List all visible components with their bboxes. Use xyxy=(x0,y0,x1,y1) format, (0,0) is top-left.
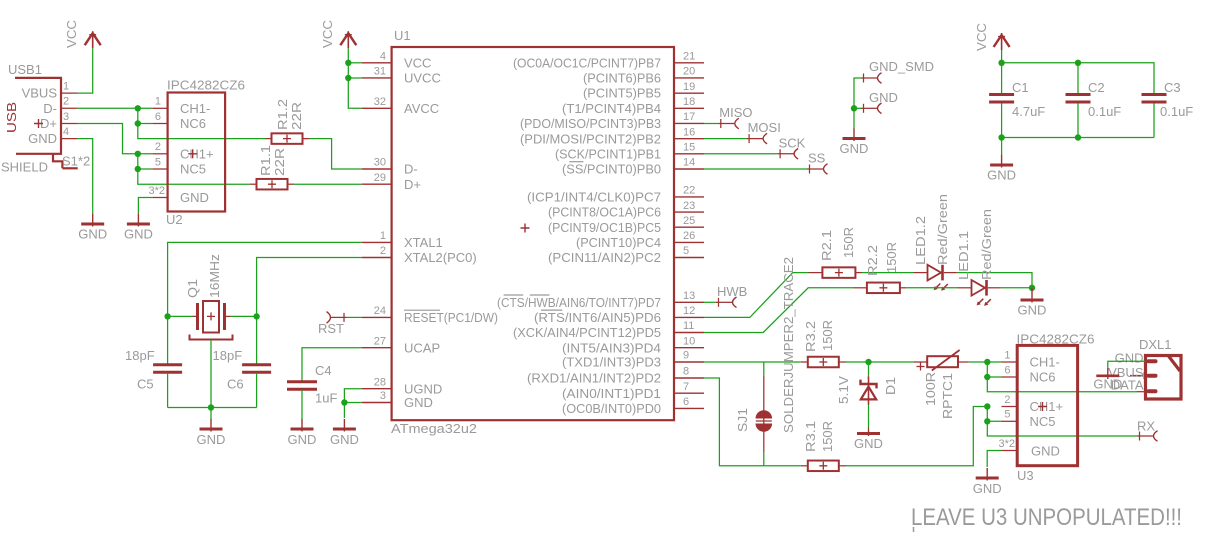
junction dot D+ pin5 xyxy=(135,166,141,172)
U1 pin 9 (TXD1/INT3)PD3 xyxy=(674,361,704,363)
U3 pin 1 xyxy=(1002,361,1018,363)
svg-text:4: 4 xyxy=(380,51,386,63)
junction dot bottom rail C2 xyxy=(1075,134,1081,140)
svg-text:VCC: VCC xyxy=(974,23,989,51)
U1 pin 5 (PCIN11/AIN2)PC2 xyxy=(674,257,704,259)
junction dot D- pin1 xyxy=(135,105,141,111)
svg-text:(OC0A/OC1C/PCINT7)PB7: (OC0A/OC1C/PCINT7)PB7 xyxy=(513,55,661,70)
junction dot top rail C2 xyxy=(1075,60,1081,66)
svg-text:GND: GND xyxy=(869,90,898,105)
svg-text:3: 3 xyxy=(380,390,386,402)
svg-text:D-: D- xyxy=(43,101,57,116)
wire R2.2 to LED1.1 xyxy=(906,287,957,289)
svg-text:23: 23 xyxy=(683,200,695,212)
ground GND (D1) xyxy=(868,431,870,437)
wire R3.2 to zener node xyxy=(846,361,913,363)
svg-text:VBUS: VBUS xyxy=(22,86,58,101)
svg-text:150R: 150R xyxy=(820,421,835,452)
svg-text:17: 17 xyxy=(683,111,695,123)
svg-text:16MHz: 16MHz xyxy=(207,254,222,298)
svg-text:ATmega32u2: ATmega32u2 xyxy=(391,421,477,436)
DXL1 pin 3 DATA xyxy=(1147,389,1158,393)
svg-text:UGND: UGND xyxy=(404,381,442,396)
net flag RX xyxy=(1136,435,1138,437)
svg-text:SHIELD: SHIELD xyxy=(1,160,48,175)
svg-text:2: 2 xyxy=(63,96,69,108)
ground GND (U3) xyxy=(986,468,988,481)
wire zener node to D1 xyxy=(868,362,870,376)
svg-text:RPTC1: RPTC1 xyxy=(940,373,955,419)
junction dot GND_SMD xyxy=(851,105,857,111)
svg-text:C3: C3 xyxy=(1164,80,1181,95)
svg-text:GND: GND xyxy=(1093,377,1122,392)
svg-text:4: 4 xyxy=(63,126,69,138)
svg-text:21: 21 xyxy=(683,51,695,63)
svg-text:(PCINT10)PC4: (PCINT10)PC4 xyxy=(576,235,661,250)
IC U3 IPC4282CZ6 box xyxy=(1017,345,1077,465)
U1 pin 32 AVCC xyxy=(362,107,392,109)
svg-text:3*2: 3*2 xyxy=(148,185,165,197)
LED LED1.1 Red/Green xyxy=(958,287,972,289)
wire bottom rail to ground xyxy=(1001,138,1003,156)
svg-text:(RTS/INT6/AIN5)PD6: (RTS/INT6/AIN5)PD6 xyxy=(534,310,661,325)
U1 pin 15 (SCK/PCINT1)PB1 xyxy=(674,153,704,155)
svg-text:30: 30 xyxy=(374,157,386,169)
svg-text:CH1-: CH1- xyxy=(1030,355,1060,370)
svg-text:RESET(PC1/DW): RESET(PC1/DW) xyxy=(404,310,498,325)
U1 pin 31 UVCC xyxy=(362,77,392,79)
svg-text:D+: D+ xyxy=(404,177,421,192)
U1 pin 16 (PDI/MOSI/PCINT2)PB2 xyxy=(674,138,704,140)
U2 pin 3*2 xyxy=(152,197,167,199)
svg-text:IPC4282CZ6: IPC4282CZ6 xyxy=(167,78,245,93)
svg-text:C2: C2 xyxy=(1088,80,1105,95)
wire GND flag net xyxy=(854,107,861,109)
svg-text:150R: 150R xyxy=(841,227,856,258)
U1 pin 2 XTAL2(PC0) xyxy=(362,257,392,259)
origin cross U1 xyxy=(521,224,530,233)
svg-text:(SS/PCINT0)PB0: (SS/PCINT0)PB0 xyxy=(562,162,661,177)
ground GND (SMD net) xyxy=(853,129,855,142)
svg-text:(PCINT9/OC1B)PC5: (PCINT9/OC1B)PC5 xyxy=(548,220,661,235)
U1 pin 12 (RTS/INT6/AIN5)PD6 xyxy=(674,316,704,318)
wire MISO xyxy=(704,123,718,125)
junction dot D+ pin2 xyxy=(135,151,141,157)
svg-text:C4: C4 xyxy=(315,363,332,378)
power symbol VCC (USB) xyxy=(92,31,94,48)
junction dot zener xyxy=(865,359,871,365)
wire UGND GND pins xyxy=(344,389,362,403)
junction dot top rail C1 xyxy=(998,60,1004,66)
svg-text:IPC4282CZ6: IPC4282CZ6 xyxy=(1017,332,1095,347)
connector DXL1 outline xyxy=(1146,356,1182,400)
ground GND (DXL1) xyxy=(1107,368,1109,379)
wire VBUS to VCC xyxy=(78,48,93,93)
svg-text:NC5: NC5 xyxy=(180,162,206,177)
U2 pin 1 xyxy=(152,107,167,109)
svg-text:14: 14 xyxy=(683,157,695,169)
svg-text:LED1.1: LED1.1 xyxy=(956,231,971,280)
svg-text:(INT5/AIN3)PD4: (INT5/AIN3)PD4 xyxy=(562,340,661,355)
svg-text:R3.2: R3.2 xyxy=(803,321,818,352)
wire to ground (GND_SMD) xyxy=(853,108,855,129)
svg-text:AVCC: AVCC xyxy=(404,101,439,116)
svg-text:GND: GND xyxy=(854,436,883,451)
wire R1.2 to U1 D- xyxy=(309,139,362,169)
ground GND (caps) xyxy=(1001,155,1003,168)
wire PD6 to R2.1 xyxy=(704,273,809,318)
svg-text:1: 1 xyxy=(63,81,69,93)
wire R2.1 to LED1.2 xyxy=(862,272,914,274)
svg-text:(RXD1/AIN1/INT2)PD2: (RXD1/AIN1/INT2)PD2 xyxy=(527,371,661,386)
svg-text:22: 22 xyxy=(683,185,695,197)
svg-text:18pF: 18pF xyxy=(125,348,155,363)
junction dot VCC pin31 xyxy=(345,75,351,81)
origin cross U2 xyxy=(188,149,197,158)
svg-text:GND: GND xyxy=(28,131,57,146)
DXL1 pin 2 VBUS xyxy=(1147,374,1158,378)
svg-text:13: 13 xyxy=(683,290,695,302)
svg-text:4.7uF: 4.7uF xyxy=(1012,104,1045,119)
U1 pin 11 (XCK/AIN4/PCINT12)PD5 xyxy=(674,332,704,334)
svg-text:HWB: HWB xyxy=(717,284,747,299)
svg-text:GND: GND xyxy=(1115,350,1144,365)
svg-text:GND: GND xyxy=(987,168,1016,183)
origin cross U3 xyxy=(1038,402,1047,411)
net flag MISO xyxy=(718,123,734,125)
svg-text:1: 1 xyxy=(380,230,386,242)
svg-text:18: 18 xyxy=(683,96,695,108)
thermistor RPTC1 100R xyxy=(927,356,958,367)
svg-text:6: 6 xyxy=(1004,364,1010,376)
ground GND (U1 GND pin) xyxy=(343,419,345,432)
junction dot UGND xyxy=(341,399,347,405)
svg-text:(AIN0/INT1)PD1: (AIN0/INT1)PD1 xyxy=(562,386,661,401)
svg-text:(PDO/MISO/PCINT3)PB3: (PDO/MISO/PCINT3)PB3 xyxy=(520,116,661,131)
svg-text:32: 32 xyxy=(374,96,386,108)
svg-text:XTAL2(PC0): XTAL2(PC0) xyxy=(404,250,477,265)
wire VCC to top rail xyxy=(1001,50,1003,63)
svg-text:CH1-: CH1- xyxy=(180,101,210,116)
svg-text:U1: U1 xyxy=(394,28,411,43)
svg-text:22R: 22R xyxy=(289,102,304,130)
svg-text:D1: D1 xyxy=(883,377,898,395)
svg-text:C5: C5 xyxy=(137,377,154,392)
svg-text:GND: GND xyxy=(180,190,209,205)
origin cross USB1 xyxy=(34,119,43,128)
U1 pin 3 GND xyxy=(362,402,392,404)
wire HWB xyxy=(704,301,716,303)
U1 pin 22 (ICP1/INT4/CLK0)PC7 xyxy=(674,196,704,198)
crystal Q1 16MHz xyxy=(168,315,193,317)
ground GND (C4) xyxy=(301,419,303,432)
resistor R1.2 22R xyxy=(265,138,272,140)
svg-text:12: 12 xyxy=(683,305,695,317)
wire USB GND xyxy=(78,139,93,214)
capacitor C4 1uF xyxy=(287,380,317,383)
svg-text:25: 25 xyxy=(683,215,695,227)
svg-text:1: 1 xyxy=(155,96,161,108)
svg-text:19: 19 xyxy=(683,81,695,93)
svg-text:6: 6 xyxy=(155,111,161,123)
net flag RST xyxy=(327,312,331,324)
junction dot U3 pin1 xyxy=(984,359,990,365)
U1 pin 25 (PCINT9/OC1B)PC5 xyxy=(674,226,704,228)
net flag SCK xyxy=(778,153,794,155)
wire UCAP to C4 xyxy=(302,348,362,382)
svg-text:(PCIN11/AIN2)PC2: (PCIN11/AIN2)PC2 xyxy=(548,250,661,265)
wire SS xyxy=(704,168,807,170)
ground GND (LEDs) xyxy=(1031,288,1033,303)
svg-text:R2.1: R2.1 xyxy=(819,230,834,261)
U3 pin 5 xyxy=(1002,420,1018,422)
junction dot bottom rail C1 xyxy=(998,134,1004,140)
U1 pin 7 (AIN0/INT1)PD1 xyxy=(674,392,704,394)
U1 pin 24 RESET(PC1/DW) xyxy=(362,316,392,318)
wire R1.1 to U1 D+ xyxy=(294,183,362,185)
net flag MOSI xyxy=(747,138,763,140)
wire C4 to ground xyxy=(301,390,303,420)
svg-text:D-: D- xyxy=(404,162,418,177)
svg-text:(CTS/HWB/AIN6/TO/INT7)PD7: (CTS/HWB/AIN6/TO/INT7)PD7 xyxy=(497,295,661,310)
svg-text:MISO: MISO xyxy=(719,105,752,120)
junction dot D- pin6 xyxy=(135,120,141,126)
svg-text:SS: SS xyxy=(808,151,826,166)
connector USB1 pin 4 GND xyxy=(61,138,78,140)
svg-text:R1.1: R1.1 xyxy=(258,145,273,176)
svg-text:9: 9 xyxy=(683,350,689,362)
U1 pin 21 (OC0A/OC1C/PCINT7)PB7 xyxy=(674,62,704,64)
wire XTAL1 xyxy=(168,242,362,316)
svg-text:USB1: USB1 xyxy=(8,62,42,77)
svg-text:5: 5 xyxy=(1004,409,1010,421)
svg-text:6: 6 xyxy=(683,396,689,408)
U1 pin 28 UGND xyxy=(362,388,392,390)
wire RPTC1 to U3 pin1 xyxy=(969,361,1002,363)
svg-text:2: 2 xyxy=(380,245,386,257)
svg-text:LEAVE U3 UNPOPULATED!!!: LEAVE U3 UNPOPULATED!!! xyxy=(911,504,1182,531)
svg-text:16: 16 xyxy=(683,126,695,138)
U3 pin 3*2 xyxy=(1002,450,1018,452)
junction dot XTAL1 xyxy=(164,313,170,319)
ground GND (U2) xyxy=(137,214,139,227)
svg-text:NC6: NC6 xyxy=(1030,370,1056,385)
wire SCK xyxy=(704,153,778,155)
svg-text:LED1.2: LED1.2 xyxy=(913,216,928,265)
svg-text:GND: GND xyxy=(78,227,107,242)
svg-text:GND: GND xyxy=(330,432,359,447)
wire crystal to ground rail xyxy=(210,340,212,408)
svg-text:5: 5 xyxy=(155,156,161,168)
junction dot ground rail xyxy=(208,404,214,410)
net flag SS xyxy=(807,168,823,170)
junction dot VCC pin4 xyxy=(345,60,351,66)
U1 pin 6 (OC0B/INT0)PD0 xyxy=(674,407,704,409)
svg-text:NC6: NC6 xyxy=(180,116,206,131)
net flag HWB xyxy=(716,301,732,303)
svg-text:(XCK/AIN4/PCINT12)PD5: (XCK/AIN4/PCINT12)PD5 xyxy=(513,325,661,340)
svg-text:3*2: 3*2 xyxy=(998,438,1015,450)
svg-text:R1.2: R1.2 xyxy=(275,99,290,130)
svg-text:UCAP: UCAP xyxy=(404,340,440,355)
wire top rail xyxy=(1002,63,1154,93)
wire U3 pin2 to pin5 and RX across xyxy=(987,407,1001,422)
svg-text:DXL1: DXL1 xyxy=(1139,337,1172,352)
capacitor C6 18pF xyxy=(256,316,258,364)
wire bottom rail xyxy=(1002,137,1154,139)
svg-text:29: 29 xyxy=(374,172,386,184)
wire crystal ground rail xyxy=(168,407,257,409)
resistor R2.1 150R xyxy=(809,272,823,274)
U1 pin 23 (PCINT8/OC1A)PC6 xyxy=(674,211,704,213)
net flag GND xyxy=(861,107,877,109)
svg-text:XTAL1: XTAL1 xyxy=(404,235,443,250)
IC U1 box xyxy=(392,47,674,420)
svg-text:VCC: VCC xyxy=(64,20,79,48)
svg-text:(PCINT5)PB5: (PCINT5)PB5 xyxy=(583,86,661,101)
svg-text:RX: RX xyxy=(1137,419,1155,434)
U1 pin 29 D+ xyxy=(362,183,392,185)
U3 pin 2 xyxy=(1002,406,1018,408)
svg-text:7: 7 xyxy=(683,381,689,393)
svg-text:Red/Green: Red/Green xyxy=(935,194,950,265)
svg-text:GND: GND xyxy=(840,141,869,156)
power symbol VCC (U1) xyxy=(347,31,349,48)
svg-text:100R: 100R xyxy=(923,372,938,406)
U1 pin 13 (CTS/HWB/AIN6/TO/INT7)PD7 xyxy=(674,301,704,303)
svg-text:3: 3 xyxy=(63,111,69,123)
connector USB1 pin 2 D- xyxy=(61,107,78,109)
U1 pin 27 UCAP xyxy=(362,347,392,349)
junction dot LEDs ground xyxy=(1029,285,1035,291)
wire U3 pin1 to pin6 and DATA across xyxy=(987,362,1001,377)
U3 pin 6 xyxy=(1002,376,1018,378)
capacitor C3 0.1uF xyxy=(1142,93,1167,96)
svg-text:28: 28 xyxy=(374,376,386,388)
svg-text:26: 26 xyxy=(683,230,695,242)
svg-text:U3: U3 xyxy=(1017,468,1034,483)
svg-text:RST: RST xyxy=(318,321,344,336)
solder jumper SJ1 xyxy=(763,362,765,376)
svg-text:10: 10 xyxy=(683,335,695,347)
connector USB1 shield pin S1*2 xyxy=(62,167,77,169)
svg-text:R3.1: R3.1 xyxy=(803,421,818,452)
svg-text:150R: 150R xyxy=(884,242,899,273)
wire VCC to U1 pins 4 31 32 xyxy=(348,48,362,108)
svg-text:2: 2 xyxy=(1004,394,1010,406)
svg-text:(TXD1/INT3)PD3: (TXD1/INT3)PD3 xyxy=(562,355,661,370)
U2 pin 6 xyxy=(152,123,167,125)
svg-text:Q1: Q1 xyxy=(185,279,200,298)
power symbol VCC (caps) xyxy=(1001,33,1003,50)
U1 pin 1 XTAL1 xyxy=(362,241,392,243)
overline CTS HWB PD7 xyxy=(504,294,524,296)
U1 pin 17 (PDO/MISO/PCINT3)PB3 xyxy=(674,122,704,124)
wire D- to U2 pin6 and across xyxy=(138,108,265,138)
svg-text:VCC: VCC xyxy=(320,20,335,48)
DXL1 pin 1 GND xyxy=(1147,359,1158,363)
svg-text:R2.2: R2.2 xyxy=(865,245,880,276)
svg-text:15: 15 xyxy=(683,142,695,154)
net flag GND_SMD xyxy=(861,77,877,79)
svg-text:GND: GND xyxy=(1018,303,1047,318)
svg-text:S1*2: S1*2 xyxy=(62,153,90,168)
svg-text:GND: GND xyxy=(288,432,317,447)
svg-text:31: 31 xyxy=(374,66,386,78)
wire DXL1 GND pin xyxy=(1108,361,1146,368)
connector USB1 outline xyxy=(15,78,62,168)
U1 pin 18 (T1/PCINT4)PB4 xyxy=(674,107,704,109)
svg-text:SOLDERJUMPER2_TRACE2: SOLDERJUMPER2_TRACE2 xyxy=(781,257,796,433)
svg-text:GND: GND xyxy=(124,227,153,242)
svg-text:(T1/PCINT4)PB4: (T1/PCINT4)PB4 xyxy=(562,101,661,116)
svg-text:1: 1 xyxy=(1004,349,1010,361)
U1 pin 26 (PCINT10)PC4 xyxy=(674,241,704,243)
resistor R3.2 150R xyxy=(801,361,808,363)
wire PD5 to R2.2 xyxy=(704,288,854,333)
junction dot XTAL2 xyxy=(253,313,259,319)
wire D- USB to U2 pin1 xyxy=(78,107,153,109)
svg-text:24: 24 xyxy=(374,305,386,317)
connector USB1 pin 1 VBUS xyxy=(61,92,78,94)
wire LED1.1 to ground corner xyxy=(1001,287,1032,289)
wire LED1.2 to ground corner xyxy=(957,273,1032,288)
wire R3.1 to U3 pin2 riser xyxy=(846,407,987,466)
resistor R1.1 22R xyxy=(250,183,257,185)
resistor R3.1 150R xyxy=(801,465,808,467)
svg-text:GND: GND xyxy=(1031,444,1060,459)
wire rail to ground xyxy=(210,408,212,420)
overline SS PB0 xyxy=(569,161,583,163)
wire D+ USB jog to U2 pin2 xyxy=(78,124,153,154)
svg-text:GND_SMD: GND_SMD xyxy=(869,59,934,74)
svg-text:11: 11 xyxy=(683,320,694,332)
IC U2 IPC4282CZ6 box xyxy=(168,93,226,212)
U1 pin 20 (PCINT6)PB6 xyxy=(674,77,704,79)
svg-text:SCK: SCK xyxy=(779,135,806,150)
svg-text:GND: GND xyxy=(973,481,1002,496)
svg-text:MOSI: MOSI xyxy=(748,120,781,135)
svg-text:GND: GND xyxy=(404,395,433,410)
svg-text:(ICP1/INT4/CLK0)PC7: (ICP1/INT4/CLK0)PC7 xyxy=(527,190,661,205)
svg-text:2: 2 xyxy=(155,141,161,153)
wire PD2 RXD1 row xyxy=(704,378,801,466)
wire U2 GND pin to ground xyxy=(138,198,152,215)
ground GND (crystal) xyxy=(210,419,212,432)
U1 pin 8 (RXD1/AIN1/INT2)PD2 xyxy=(674,377,704,379)
LED LED1.2 Red/Green xyxy=(914,272,928,274)
overline RESET xyxy=(404,309,440,311)
wire PD3 TXD1 row xyxy=(704,361,801,363)
svg-text:(OC0B/INT0)PD0: (OC0B/INT0)PD0 xyxy=(562,401,661,416)
svg-text:5: 5 xyxy=(683,245,689,257)
svg-text:SJ1: SJ1 xyxy=(735,408,750,432)
svg-text:(SCK/PCINT1)PB1: (SCK/PCINT1)PB1 xyxy=(555,146,661,161)
svg-text:Red/Green: Red/Green xyxy=(979,209,994,280)
connector USB1 pin 3 D+ xyxy=(61,123,78,125)
svg-text:(PCINT6)PB6: (PCINT6)PB6 xyxy=(583,71,661,86)
svg-text:C1: C1 xyxy=(1012,80,1029,95)
resistor R2.2 150R xyxy=(854,287,868,289)
svg-text:1uF: 1uF xyxy=(315,391,337,406)
svg-text:27: 27 xyxy=(374,335,386,347)
svg-text:(PCINT8/OC1A)PC6: (PCINT8/OC1A)PC6 xyxy=(548,205,661,220)
ground GND (USB) xyxy=(92,214,94,227)
svg-text:0.1uF: 0.1uF xyxy=(1160,104,1193,119)
svg-text:150R: 150R xyxy=(820,320,835,351)
svg-text:(PDI/MOSI/PCINT2)PB2: (PDI/MOSI/PCINT2)PB2 xyxy=(520,131,661,146)
svg-text:GND: GND xyxy=(197,432,226,447)
